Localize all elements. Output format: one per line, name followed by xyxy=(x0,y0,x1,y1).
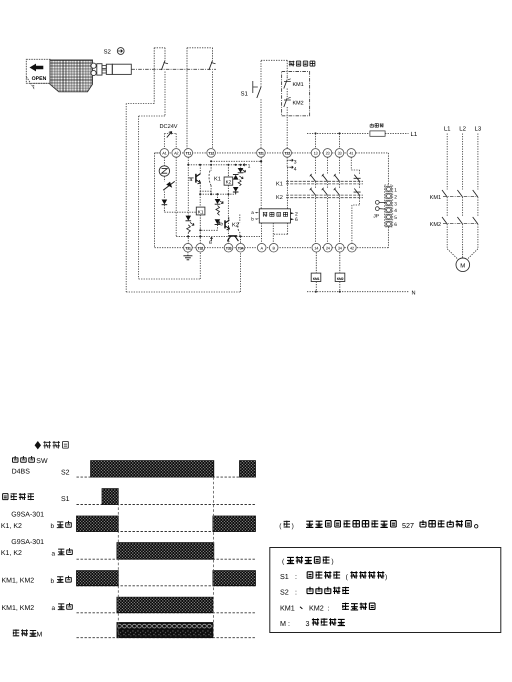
svg-text:5: 5 xyxy=(394,215,397,221)
wire: unit bottom terminal row xyxy=(155,247,389,249)
svg-text:S1: S1 xyxy=(280,572,289,581)
transistor c (output driver) xyxy=(228,236,239,241)
terminals bottom row T31 T32 T33 T34 A B 14 24 34 42 xyxy=(184,243,357,252)
svg-text:KM2: KM2 xyxy=(337,277,344,281)
svg-text:KM1: KM1 xyxy=(293,82,304,88)
label row7 电动机M xyxy=(13,629,19,636)
svg-text::: : xyxy=(295,574,297,581)
transistor a xyxy=(188,165,200,191)
wire: internal rail T11-LED (lower) xyxy=(188,164,243,166)
svg-text:3: 3 xyxy=(294,159,297,165)
diode on A1 branch xyxy=(162,189,168,212)
wire: connector to 42 row xyxy=(387,227,389,248)
svg-text:T33: T33 xyxy=(226,247,232,251)
svg-text:): ) xyxy=(331,559,333,566)
svg-text:T32: T32 xyxy=(197,247,203,251)
LED indicator on T11 column xyxy=(186,216,194,244)
svg-text:b: b xyxy=(220,221,223,227)
svg-text:L3: L3 xyxy=(475,126,482,133)
svg-text:41: 41 xyxy=(349,151,353,156)
svg-text:KM2: KM2 xyxy=(430,222,442,228)
svg-text:6: 6 xyxy=(295,217,298,223)
label pin 6 arrow xyxy=(210,237,212,241)
svg-text:T21: T21 xyxy=(258,152,264,156)
svg-text:DC24V: DC24V xyxy=(160,124,178,130)
svg-text:OPEN: OPEN xyxy=(32,76,47,82)
label row1 安全门SW D4BS S2 xyxy=(12,456,18,462)
svg-text:A1: A1 xyxy=(162,151,166,156)
wire: motor phase columns xyxy=(442,134,478,249)
feedback loop box (dash-dot) xyxy=(282,72,310,116)
relay contact K2 (NO) xyxy=(232,215,240,237)
relay contact K2 (output, mechanical link) xyxy=(276,195,363,201)
relay contact K1 (output, mechanical link) xyxy=(276,181,363,187)
svg-text:a: a xyxy=(52,550,56,557)
wire: S1 to feedback loop xyxy=(261,60,287,77)
svg-text:KM2: KM2 xyxy=(309,603,324,612)
svg-text:L1: L1 xyxy=(444,126,451,133)
svg-text:2: 2 xyxy=(394,194,397,200)
svg-text:G9SA-301: G9SA-301 xyxy=(11,512,44,519)
wire: 34 to KM2 coil xyxy=(339,252,341,273)
svg-text:b: b xyxy=(51,523,55,530)
contact KM2 (NC, feedback) xyxy=(284,96,304,152)
timing guide line 2 xyxy=(212,477,214,638)
svg-text::: : xyxy=(288,621,290,628)
label pin 2 arrow xyxy=(291,212,295,214)
motor M xyxy=(456,258,470,272)
svg-text:13: 13 xyxy=(314,151,318,156)
label S2 with direction symbol xyxy=(104,48,125,56)
svg-text:527: 527 xyxy=(402,521,414,530)
svg-text:S1: S1 xyxy=(241,91,249,98)
thermal switch on A1 branch xyxy=(163,176,175,190)
svg-text::: : xyxy=(295,589,297,596)
svg-text:): ) xyxy=(385,574,387,581)
svg-text:K2: K2 xyxy=(232,223,239,229)
door switch operation key xyxy=(91,63,131,76)
svg-text:KM1: KM1 xyxy=(280,603,295,612)
svg-text:K1, K2: K1, K2 xyxy=(1,550,22,557)
contact KM1 (NC, feedback) xyxy=(284,77,304,96)
LED pair cluster (anti-parallel) xyxy=(233,165,246,194)
svg-text:23: 23 xyxy=(326,151,330,156)
svg-text:3: 3 xyxy=(306,619,310,628)
wire: top row to connector xyxy=(356,152,388,154)
svg-text:6: 6 xyxy=(394,222,397,228)
control circuit box 控制回路 xyxy=(259,209,290,223)
wire: A1 left loop to bottom row xyxy=(155,153,161,248)
transistor b xyxy=(220,217,229,230)
door switch contact channel 1 (T-row loop) xyxy=(154,48,168,116)
svg-text:A2: A2 xyxy=(174,151,178,156)
wire: N line xyxy=(307,291,409,293)
svg-text:S1: S1 xyxy=(61,496,70,503)
relay contact K1 (NO) xyxy=(209,165,221,191)
jumper plug JP xyxy=(373,201,385,220)
svg-text:): ) xyxy=(292,523,294,530)
label pin 4 arrow xyxy=(287,160,297,172)
svg-text:K1: K1 xyxy=(276,181,283,187)
wire: NC column 41-42 xyxy=(351,157,360,243)
supply DC24V xyxy=(160,124,178,150)
svg-text:KM1: KM1 xyxy=(313,277,320,281)
wire: mechanical actuating line (dash-dot) xyxy=(131,68,216,70)
svg-text:S2: S2 xyxy=(61,469,70,476)
door switch contact channel 2 (T-row loop) xyxy=(187,48,216,150)
label pin 6 arrow xyxy=(291,218,295,220)
svg-text:KM1: KM1 xyxy=(430,195,442,201)
relay coil K2 xyxy=(224,165,233,244)
wire: T21 column to control box xyxy=(260,157,262,209)
svg-text:K1: K1 xyxy=(214,177,221,183)
svg-text:T22: T22 xyxy=(284,152,290,156)
contactor coil KM1 xyxy=(311,273,321,281)
wire: link emitter to mid rail xyxy=(199,191,201,194)
svg-text:4: 4 xyxy=(294,166,297,172)
svg-text:G9SA-301: G9SA-301 xyxy=(11,539,44,546)
svg-text:T31: T31 xyxy=(185,247,191,251)
wire: riser 33 to L1 xyxy=(339,133,341,148)
relay coil K1 xyxy=(196,194,205,243)
wire: control box to A xyxy=(261,223,263,243)
label 反馈回路 (feedback loop) xyxy=(289,61,295,67)
svg-text:M: M xyxy=(37,632,43,639)
svg-text:N: N xyxy=(412,290,416,296)
door switch OPEN arrow xyxy=(30,64,47,83)
timing guide line 1 xyxy=(117,489,119,638)
timing baselines xyxy=(77,477,256,638)
surge suppressor (circle) on A1 branch xyxy=(159,157,169,176)
wire: internal rail mid xyxy=(200,193,236,195)
wire: A1 branch to K1 coil xyxy=(164,211,196,213)
timing header ◆动作图 xyxy=(35,441,41,449)
parts example box xyxy=(270,548,501,633)
wire: T34 column xyxy=(240,236,242,243)
svg-text:K2: K2 xyxy=(276,195,283,201)
wire: door switch to terminal loop (outer) xyxy=(126,104,240,293)
wire: KM2 coil to N xyxy=(339,282,341,292)
svg-text:a: a xyxy=(251,210,254,215)
wire: unit top terminal row xyxy=(155,152,357,154)
contactor coil KM2 xyxy=(335,273,345,281)
reset switch S1 xyxy=(241,60,262,153)
svg-text:b: b xyxy=(51,578,55,585)
wire: internal 0V rail xyxy=(176,235,261,237)
terminals top row A1 A2 T11 T12 T21 T22 13 23 33 41 xyxy=(160,149,356,158)
svg-text:1: 1 xyxy=(248,164,251,170)
label pin 3 arrow xyxy=(287,157,297,165)
svg-text:T12: T12 xyxy=(208,152,214,156)
wire: emitter link xyxy=(200,190,211,192)
svg-text:SW: SW xyxy=(36,458,48,465)
wire: control box to B xyxy=(272,223,274,243)
ground xyxy=(183,252,192,260)
svg-text:L1: L1 xyxy=(411,131,418,138)
svg-text:M: M xyxy=(280,619,286,628)
svg-text:33: 33 xyxy=(338,151,342,156)
svg-text:S2: S2 xyxy=(280,587,289,596)
svg-text:K1: K1 xyxy=(198,210,204,215)
svg-text:6: 6 xyxy=(209,240,212,246)
svg-text:D4BS: D4BS xyxy=(12,468,31,475)
wire: T22 column to control box xyxy=(286,167,288,209)
svg-text:T11: T11 xyxy=(186,152,192,156)
wire: A2 column to 0V rail xyxy=(175,157,177,236)
wire: motor leads xyxy=(447,249,478,260)
wire: output contact columns 13-14 23-24 33-34 xyxy=(310,157,340,243)
wire: 14 to KM1 coil xyxy=(315,252,317,273)
svg-text:JP: JP xyxy=(373,214,380,220)
svg-text:L2: L2 xyxy=(459,126,466,133)
label pin 1 arrow xyxy=(243,164,247,166)
wire: T11 column xyxy=(187,157,189,215)
svg-text:3: 3 xyxy=(394,201,397,207)
label row2 复位开关 S1 xyxy=(3,494,8,500)
svg-text:b: b xyxy=(251,217,254,222)
svg-text:4: 4 xyxy=(394,208,397,214)
svg-text:S2: S2 xyxy=(104,49,112,56)
fuse F1 xyxy=(370,131,385,136)
svg-text:42: 42 xyxy=(350,246,354,251)
svg-text:KM1, KM2: KM1, KM2 xyxy=(2,578,35,585)
timing waveform bars xyxy=(77,461,256,638)
wire: 41 to connector xyxy=(387,153,389,185)
wire: K1 contact to mid rail xyxy=(210,191,212,194)
wire: control box right leg xyxy=(273,223,287,234)
svg-text:K1, K2: K1, K2 xyxy=(1,523,22,530)
svg-text::: : xyxy=(328,605,330,612)
wire: L1 supply line xyxy=(307,132,370,134)
svg-text:1: 1 xyxy=(394,187,397,193)
svg-text:KM2: KM2 xyxy=(293,101,304,107)
wire: internal rail T12-T21 (upper) xyxy=(211,160,261,162)
wire: KM1 coil to N xyxy=(315,282,317,292)
svg-text:M: M xyxy=(460,262,465,269)
wire: riser 13 to L1 xyxy=(315,133,317,148)
wire: door switch to terminal loop (inner) xyxy=(139,116,201,279)
LED indicator chain (K1) xyxy=(200,194,223,230)
svg-text:a: a xyxy=(52,605,56,612)
svg-text:KM1, KM2: KM1, KM2 xyxy=(2,605,35,612)
svg-text:K2: K2 xyxy=(226,180,232,185)
connector JP (6-pin) xyxy=(385,185,398,228)
safety door switch D4BS body xyxy=(26,59,92,92)
